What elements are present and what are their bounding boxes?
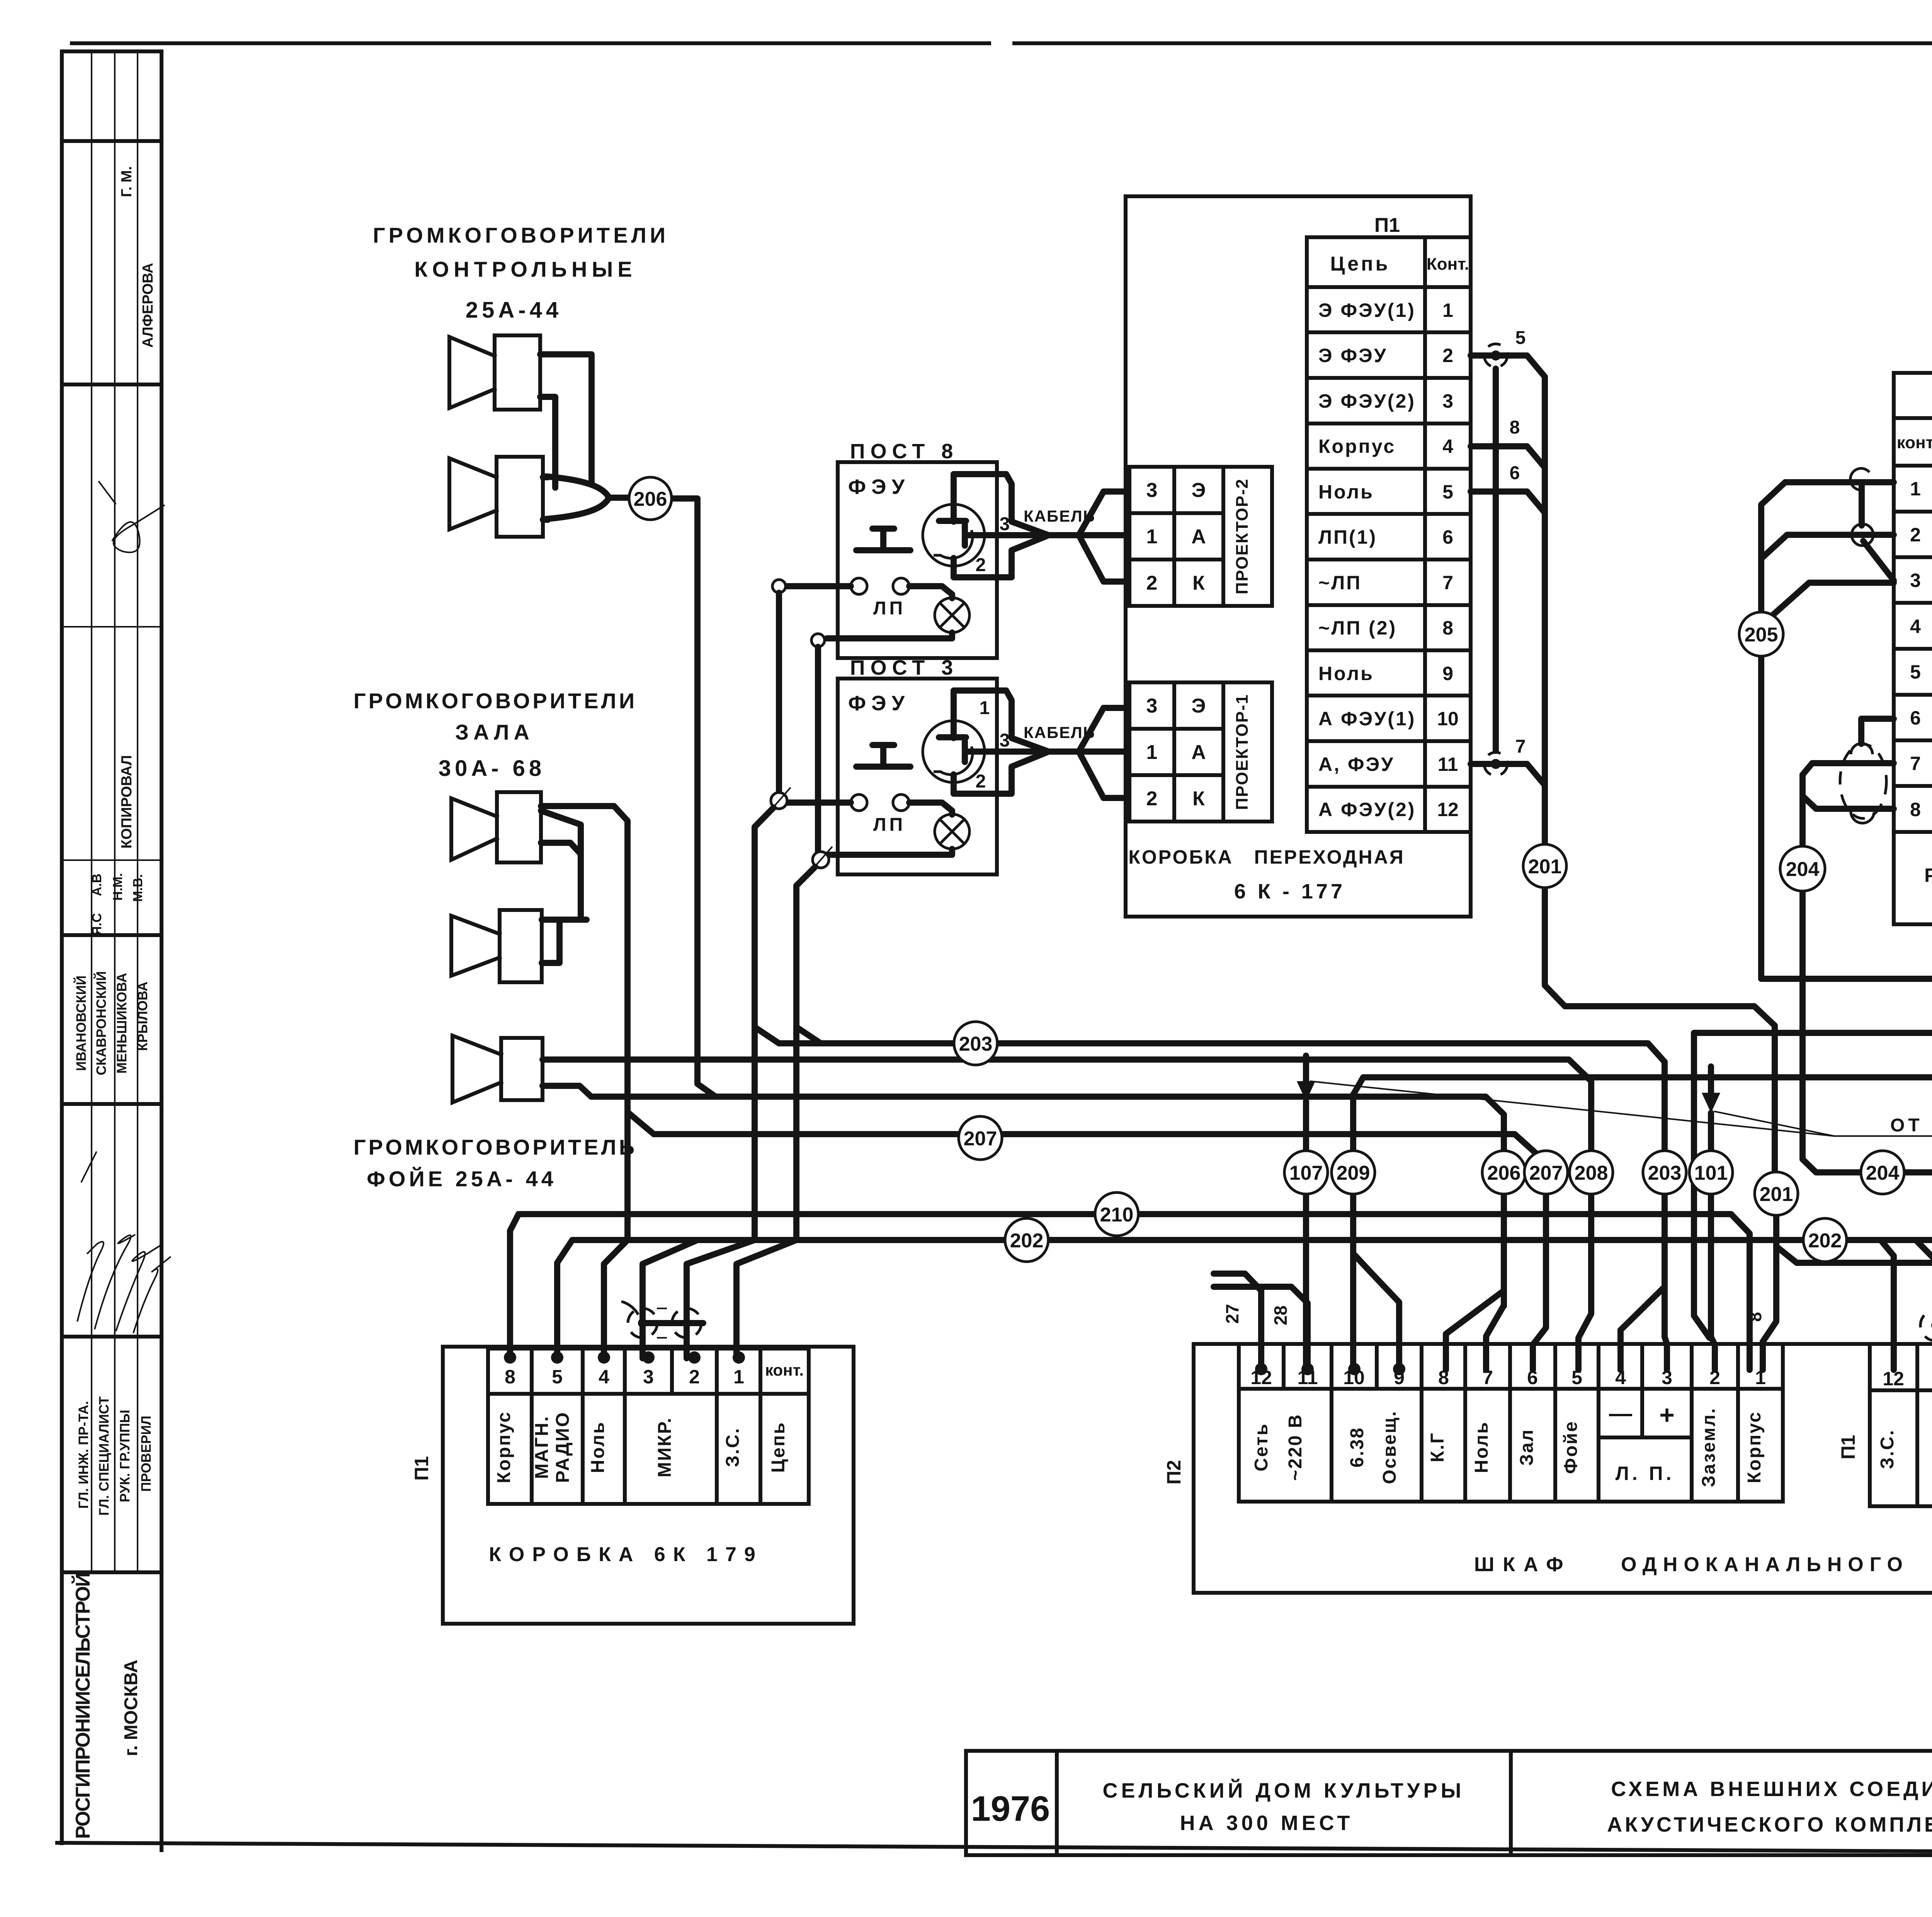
- projector terminal table ПРОЕКТОР-1 outline: [1129, 682, 1272, 822]
- control speaker 1 horn: [449, 337, 495, 408]
- foyer speaker box: [501, 1038, 543, 1100]
- svg-text:5: 5: [1910, 661, 1921, 683]
- svg-text:КОПИРОВАЛ: КОПИРОВАЛ: [119, 755, 135, 849]
- svg-text:конт.: конт.: [765, 1361, 804, 1379]
- svg-text:Ноль: Ноль: [1318, 481, 1374, 503]
- П1 pin11 connector dot: [1931, 1321, 1932, 1330]
- svg-text:2: 2: [1146, 572, 1158, 594]
- microphone shield dashed circle left: [628, 1308, 657, 1338]
- box 6К179 col line 2093: [807, 1349, 811, 1504]
- cable 201 below circle into П2 pin1: [1763, 1215, 1776, 1370]
- svg-text:7: 7: [1515, 737, 1526, 757]
- svg-text:8: 8: [1910, 799, 1921, 820]
- svg-text:П1: П1: [1837, 1435, 1859, 1459]
- hall speaker 2 horn: [451, 916, 500, 976]
- svg-text:6.38: 6.38: [1347, 1427, 1367, 1467]
- П1 header underline: [1307, 285, 1471, 289]
- svg-text:203: 203: [959, 1033, 993, 1055]
- svg-text:4: 4: [599, 1366, 609, 1388]
- jumper diagonal pin2-pin3: [1863, 541, 1894, 580]
- svg-text:Ноль: Ноль: [1471, 1421, 1492, 1473]
- svg-text:ГЛ. ИНЖ. ПР-ТА.: ГЛ. ИНЖ. ПР-ТА.: [76, 1401, 91, 1509]
- shield hop arc pin6: [1851, 743, 1872, 754]
- cable number circle 201: [1755, 1172, 1798, 1215]
- cabinet П2 table top/bottom lines: [1239, 1387, 1783, 1391]
- svg-text:2: 2: [1442, 345, 1453, 366]
- regulator П1 row line 1: [1894, 510, 1932, 514]
- tube pin 3 wire post 3: [966, 748, 1049, 755]
- cabinet П2 col line 3792: [1463, 1344, 1467, 1502]
- cable 204 from regulator down and across: [1803, 890, 1861, 1172]
- svg-text:ГРОМКОГОВОРИТЕЛЬ: ГРОМКОГОВОРИТЕЛЬ: [354, 1135, 637, 1159]
- cabinet П2 col line 4025: [1553, 1344, 1557, 1502]
- cable number circle 205: [1739, 612, 1783, 656]
- push button stem post 8: [880, 529, 886, 549]
- svg-text:28: 28: [1270, 1305, 1291, 1325]
- svg-text:3: 3: [1000, 514, 1010, 534]
- wire 101 into circle and П2 pin2: [1711, 1113, 1715, 1370]
- svg-text:ПРОВЕРИЛ: ПРОВЕРИЛ: [139, 1416, 154, 1492]
- svg-text:1: 1: [1910, 478, 1921, 500]
- wire hall spk1 top pin: [541, 803, 614, 809]
- cabinet П2 col line 3563 upper (Освещ merged): [1375, 1344, 1379, 1389]
- wire 107 arrow from distribution device: [1303, 1056, 1309, 1082]
- cable number circle 101: [1689, 1151, 1733, 1194]
- svg-text:+: +: [1659, 1400, 1675, 1430]
- cable number circle 203: [954, 1022, 997, 1065]
- cable 208 below circle into П2 pin5: [1578, 1194, 1591, 1370]
- box 6К179 col line 1617: [623, 1349, 627, 1504]
- regulator П1 row line 0: [1894, 464, 1932, 468]
- svg-text:А.В: А.В: [90, 874, 104, 896]
- svg-text:107: 107: [1289, 1162, 1323, 1184]
- svg-text:Э ФЭУ(1): Э ФЭУ(1): [1318, 299, 1416, 321]
- svg-text:202: 202: [1010, 1230, 1044, 1252]
- svg-text:А ФЭУ(1): А ФЭУ(1): [1318, 708, 1416, 730]
- svg-text:4: 4: [1910, 616, 1921, 637]
- svg-text:СЕЛЬСКИЙ ДОМ КУЛЬТУРЫ: СЕЛЬСКИЙ ДОМ КУЛЬТУРЫ: [1103, 1779, 1465, 1802]
- regulator П1 table outline: [1894, 418, 1932, 832]
- svg-text:КОРОБКА 6К 179: КОРОБКА 6К 179: [489, 1543, 763, 1566]
- svg-text:2: 2: [1146, 788, 1158, 810]
- svg-text:25А-44: 25А-44: [466, 298, 562, 323]
- box 6К179 col line 1968: [759, 1349, 762, 1504]
- run cable 202 from box 6К179 to cabinet П1: [572, 1240, 1932, 1311]
- run cable 201 from transition box: [1565, 1006, 1775, 1173]
- П1 pin11 shield dashed circle: [1920, 1310, 1932, 1341]
- wire lamp return post 3: [827, 849, 952, 855]
- wire spk2 bottom pin to cable merge: [543, 517, 548, 523]
- junction circle with branch post3 button bus: [771, 793, 787, 809]
- cable number circle 203: [1643, 1151, 1686, 1194]
- svg-text:Э ФЭУ(2): Э ФЭУ(2): [1318, 390, 1416, 412]
- tube anode bar post 3: [939, 734, 966, 740]
- П1 row divider under Э ФЭУ(2): [1307, 422, 1471, 425]
- box 6К179 contact dot pin 5: [551, 1351, 563, 1364]
- cable fan to terminal row А post 8: [1079, 532, 1128, 538]
- border top line right part: [1014, 41, 1932, 45]
- stamp top line: [62, 49, 162, 53]
- lamp bus diagonal to lower vertical: [796, 867, 821, 1043]
- regulator П1 row line 6: [1894, 738, 1932, 742]
- tube cathode bar post 8: [962, 525, 968, 546]
- svg-text:206: 206: [634, 488, 667, 510]
- svg-text:210: 210: [1100, 1204, 1134, 1226]
- cabinet П2 col line 3322 upper (Сеть merged): [1282, 1344, 1286, 1389]
- П1 row divider under А, ФЭУ: [1307, 785, 1471, 789]
- hall speaker 1 box: [497, 792, 541, 862]
- svg-text:2: 2: [1910, 524, 1921, 546]
- svg-text:4: 4: [1442, 435, 1453, 457]
- title block divider year: [1055, 1751, 1059, 1855]
- cabinet П1 col line 4839: [1868, 1344, 1872, 1506]
- shield tie bar: [643, 1320, 703, 1326]
- svg-text:ПРОЕКТОР-1: ПРОЕКТОР-1: [1233, 694, 1252, 810]
- svg-text:2: 2: [976, 555, 986, 575]
- box 6К179 col line 1855: [715, 1349, 719, 1504]
- svg-text:ФЭУ: ФЭУ: [848, 692, 910, 715]
- button contact right post 8: [893, 578, 909, 594]
- svg-text:ГРОМКОГОВОРИТЕЛИ: ГРОМКОГОВОРИТЕЛИ: [373, 223, 669, 247]
- П2 contact dot at 3264: [1255, 1363, 1267, 1375]
- bus vertical buttons between runs: [752, 1027, 758, 1240]
- svg-text:А ФЭУ(2): А ФЭУ(2): [1318, 799, 1416, 820]
- svg-text:ФОЙЕ 25А- 44: ФОЙЕ 25А- 44: [367, 1167, 557, 1191]
- svg-text:К.Г: К.Г: [1427, 1432, 1448, 1463]
- continuation lamp bus down to box 6K179 contact 1: [736, 1240, 796, 1358]
- cabinet П2 ЛП cell divider: [1599, 1436, 1692, 1439]
- cable 206 branch to П2 pin7: [1486, 1305, 1504, 1370]
- svg-text:ГЛ. СПЕЦИАЛИСТ: ГЛ. СПЕЦИАЛИСТ: [97, 1397, 112, 1516]
- wire box 6К179 pin5 up to run 202: [557, 1240, 572, 1358]
- svg-text:М.В.: М.В.: [131, 874, 145, 902]
- wire spk1 bottom pin to cable merge: [540, 397, 555, 488]
- svg-text:1: 1: [1442, 299, 1453, 321]
- svg-text:Э: Э: [1192, 695, 1206, 717]
- box 6К179 terminal table lines: [488, 1347, 809, 1351]
- stamp divider: [62, 383, 162, 386]
- П2 pins 12/11 mains stubs 28: [1214, 1287, 1308, 1370]
- run cable 203 from posts to cabinet: [779, 1043, 1665, 1151]
- svg-text:3: 3: [1146, 479, 1158, 502]
- cabinet П2 col line 4137: [1597, 1344, 1600, 1502]
- lamp ЛП post 3: [935, 814, 969, 849]
- svg-text:ЗАЛА: ЗАЛА: [455, 720, 534, 744]
- svg-text:ШКАФ: ШКАФ: [1474, 1553, 1572, 1576]
- svg-text:Фойе: Фойе: [1561, 1420, 1581, 1474]
- cable 203 branch to П2 pin4: [1621, 1287, 1665, 1370]
- П1 row divider under Корпус: [1307, 467, 1471, 471]
- svg-text:Э ФЭУ: Э ФЭУ: [1318, 345, 1388, 366]
- svg-text:7: 7: [1910, 753, 1921, 774]
- svg-text:3: 3: [643, 1366, 654, 1388]
- cable 201 bundle vertical: [1542, 377, 1548, 845]
- svg-text:К: К: [1192, 788, 1205, 810]
- svg-text:А: А: [1191, 526, 1206, 548]
- note leader rule: [1834, 1135, 1932, 1137]
- П1 row divider under Э ФЭУ(1): [1307, 330, 1471, 334]
- cabinet ШКАФ 50У-55 outline: [1194, 1344, 1932, 1593]
- run cable 210 from box 6К179 to cabinet: [519, 1214, 1750, 1370]
- svg-text:207: 207: [964, 1128, 997, 1150]
- stamp signature squiggle: [99, 481, 165, 552]
- wire circle 206 to vertical drop: [672, 498, 716, 1097]
- stamp signature squiggles block: [77, 1242, 104, 1322]
- cable merge lens symbol upper: [546, 476, 609, 498]
- wire 6 from row Ноль contact 5: [1471, 492, 1545, 513]
- cabinet П2 col line 3206: [1237, 1344, 1241, 1502]
- svg-text:—: —: [1609, 1400, 1632, 1426]
- push button bar post 8: [856, 547, 910, 553]
- box 6К179 col line 1739 upper only (МИКР merged): [670, 1349, 674, 1394]
- svg-text:ЛП(1): ЛП(1): [1318, 526, 1377, 548]
- svg-text:РАДИО: РАДИО: [553, 1411, 573, 1483]
- shield connector dashed circle on wire 5: [1484, 344, 1507, 367]
- wire spk1 top pin to cable merge: [540, 354, 592, 483]
- tube pin 3 wire post 8: [966, 532, 1049, 538]
- cable fan to terminal row Э post 8: [1079, 492, 1128, 535]
- junction slash post3 lamp bus: [810, 847, 832, 872]
- svg-text:ФЭУ: ФЭУ: [848, 475, 910, 498]
- svg-text:Корпус: Корпус: [1318, 435, 1396, 457]
- stamp divider: [62, 1102, 162, 1106]
- svg-text:П2: П2: [1163, 1460, 1185, 1485]
- junction circle post8 button bus: [772, 580, 786, 593]
- cable fan to terminal row К post 8: [1079, 535, 1128, 582]
- svg-text:ОТ РАСПРЕДЕЛИТЕЛЬНОГО: ОТ РАСПРЕДЕЛИТЕЛЬНОГО: [1890, 1115, 1932, 1136]
- svg-text:А, ФЭУ: А, ФЭУ: [1318, 754, 1395, 775]
- junction circle post8 lamp bus: [811, 634, 825, 647]
- svg-text:~220 В: ~220 В: [1285, 1414, 1306, 1481]
- hall speaker 1 horn: [451, 798, 497, 860]
- svg-text:МАГН.: МАГН.: [532, 1415, 552, 1479]
- cable number circle 209: [1332, 1151, 1375, 1194]
- bus diagonal to lower vertical (buttons): [755, 808, 779, 1043]
- button contact left post 8: [851, 578, 867, 594]
- box 6К179 contact dot pin 3: [642, 1351, 655, 1364]
- П1 row divider under ЛП(1): [1307, 558, 1471, 561]
- cable number circle 206: [1482, 1151, 1526, 1194]
- cable number circle 201: [1523, 844, 1566, 888]
- wire 107 into circle and П2 pin11: [1303, 1101, 1309, 1370]
- cable fan to terminal row А post 3: [1079, 748, 1128, 755]
- box 6К179 col line 1263: [486, 1349, 490, 1504]
- box 6К179 contact dot pin 8: [504, 1351, 516, 1364]
- tube grid arc post 8: [934, 530, 973, 558]
- cable number circle 204: [1780, 846, 1825, 891]
- jumper vertical pin1-pin2: [1859, 485, 1865, 526]
- П1 row divider under Э ФЭУ: [1307, 376, 1471, 380]
- shield tie hook: [621, 1301, 638, 1315]
- wire regulator П1 pin3 to cable 205: [1764, 583, 1894, 623]
- svg-text:Цепь: Цепь: [1330, 253, 1390, 275]
- svg-text:ГРОМКОГОВОРИТЕЛИ: ГРОМКОГОВОРИТЕЛИ: [354, 689, 637, 713]
- twist symbol on pin1 wire: [1850, 468, 1869, 490]
- wire regulator П1 pin6 to shield: [1861, 719, 1894, 744]
- svg-text:КОРОБКА ПЕРЕХОДНАЯ: КОРОБКА ПЕРЕХОДНАЯ: [1128, 846, 1405, 868]
- button contact right post 3: [893, 794, 909, 811]
- cable 204 from circle to П1 pin13: [1904, 1172, 1932, 1310]
- volume regulator РЕГУЛЯТОР ГРОМКОСТИ 60К-31 outline: [1894, 373, 1932, 924]
- title block outline: [966, 1751, 1932, 1855]
- cable fan to terminal row К post 3: [1079, 752, 1128, 798]
- svg-text:6: 6: [1442, 526, 1453, 548]
- wire 5 from row Э ФЭУ contact 2: [1471, 356, 1545, 377]
- svg-text:9: 9: [1442, 663, 1453, 684]
- lamp ЛП post 8: [935, 598, 969, 633]
- svg-text:30А- 68: 30А- 68: [439, 756, 545, 781]
- svg-text:203: 203: [1648, 1162, 1682, 1184]
- microphone shield dashed pair lines: [657, 1308, 672, 1309]
- svg-text:Э: Э: [1192, 479, 1206, 502]
- tube cathode bar post 3: [962, 741, 968, 762]
- tube anode stem and top lead post 8: [954, 474, 1049, 535]
- svg-text:206: 206: [1487, 1162, 1521, 1184]
- svg-text:8: 8: [1442, 617, 1453, 639]
- tube anode bar post 8: [939, 518, 966, 524]
- regulator П1 row line 7: [1894, 784, 1932, 788]
- cable number circle 107: [1284, 1151, 1328, 1194]
- П1 row divider under ~ЛП (2): [1307, 648, 1471, 652]
- cable number circle 207: [959, 1116, 1002, 1160]
- svg-text:27: 27: [1222, 1304, 1242, 1323]
- svg-text:7: 7: [1442, 572, 1453, 594]
- svg-text:Корпус: Корпус: [1744, 1411, 1765, 1483]
- cable number circle 202: [1005, 1218, 1048, 1262]
- svg-text:РЕГУЛЯТОР ГРОМКОСТИ: РЕГУЛЯТОР ГРОМКОСТИ: [1924, 864, 1932, 886]
- junction circle with branch post3 lamp bus: [813, 852, 829, 868]
- stamp divider: [62, 1570, 162, 1574]
- svg-text:Н.М.: Н.М.: [111, 873, 125, 901]
- svg-text:КРЫЛОВА: КРЫЛОВА: [135, 981, 150, 1051]
- П2 contact dot at 3621: [1393, 1363, 1405, 1375]
- svg-text:РУК. ГР.УППЫ: РУК. ГР.УППЫ: [117, 1410, 133, 1502]
- control speaker 1 box: [495, 335, 540, 410]
- svg-text:ПРОЕКТОР-2: ПРОЕКТОР-2: [1233, 478, 1252, 594]
- svg-text:ПОСТ 8: ПОСТ 8: [850, 440, 959, 463]
- shield hop arc bottom: [1851, 811, 1874, 823]
- cable fan to terminal row Э post 3: [1079, 708, 1128, 752]
- wire button right contact to lamp post 8: [909, 586, 952, 598]
- lamp bus vertical down to post3 junction: [815, 647, 821, 852]
- regulator П1 row line 5: [1894, 693, 1932, 697]
- svg-text:5: 5: [1442, 481, 1453, 503]
- svg-text:МЕНЬШИКОВА: МЕНЬШИКОВА: [114, 973, 129, 1074]
- П2 contact dot at 3505: [1348, 1363, 1361, 1375]
- box 6К179 col line 1376: [530, 1349, 534, 1504]
- svg-text:ЛП: ЛП: [873, 598, 906, 619]
- box 6К179 contact dot pin 4: [598, 1351, 610, 1364]
- svg-text:К: К: [1192, 572, 1205, 594]
- tube grid arc post 3: [934, 747, 973, 775]
- svg-text:НА 300 МЕСТ: НА 300 МЕСТ: [1180, 1812, 1354, 1835]
- svg-text:Л. П.: Л. П.: [1616, 1463, 1675, 1484]
- cable number circle 210: [1095, 1192, 1138, 1236]
- svg-text:А: А: [1191, 741, 1206, 764]
- run foyer speaker wire to cable 208: [543, 1060, 1591, 1151]
- cable 209 below circle into П2 pin10: [1350, 1194, 1356, 1370]
- svg-text:Зал: Зал: [1517, 1429, 1537, 1466]
- cabinet П2 col line 4614: [1781, 1344, 1785, 1502]
- run cable 205 from regulator to cabinet П1: [1761, 979, 1932, 1113]
- svg-text:АЛФЕРОВА: АЛФЕРОВА: [140, 263, 156, 348]
- box 6К179 contact dot pin 2: [688, 1351, 701, 1364]
- svg-text:Освещ.: Освещ.: [1379, 1410, 1400, 1484]
- wire hall spk2 top pin: [542, 917, 587, 923]
- svg-text:1: 1: [733, 1366, 744, 1388]
- wire regulator П1 pin1 to cable 205: [1761, 482, 1894, 979]
- svg-text:1: 1: [1146, 526, 1158, 548]
- cable number circle 208: [1570, 1151, 1613, 1194]
- cable number circle 204: [1861, 1151, 1904, 1194]
- post box ПОСТ 8: [838, 462, 997, 658]
- wire button left contact out post 3: [787, 799, 851, 806]
- hall speakers cable 207 vertical: [614, 806, 628, 1240]
- border bottom line: [57, 1843, 1932, 1855]
- stamp divider: [62, 1335, 162, 1339]
- cabinet П2 col line 3446: [1330, 1344, 1333, 1502]
- svg-text:2: 2: [976, 771, 986, 792]
- wire lamp return post 8: [827, 633, 952, 638]
- tube anode stem and top lead post 3: [954, 691, 1049, 752]
- svg-text:3: 3: [1442, 390, 1453, 412]
- svg-text:5: 5: [1515, 328, 1526, 348]
- stamp column line 3: [137, 51, 138, 1572]
- foyer speaker horn: [452, 1036, 501, 1102]
- svg-text:11: 11: [1438, 754, 1458, 775]
- cabinet П2 col line 3908: [1508, 1344, 1512, 1502]
- svg-text:~ЛП (2): ~ЛП (2): [1318, 617, 1397, 639]
- svg-text:10: 10: [1437, 708, 1459, 730]
- svg-text:П1: П1: [411, 1456, 432, 1481]
- control speaker 2 horn: [449, 458, 497, 529]
- push button bar post 3: [856, 764, 910, 770]
- cable merge lens symbol lower: [546, 498, 609, 519]
- svg-text:З.С.: З.С.: [1877, 1429, 1898, 1469]
- wire regulator П1 pin2 to cable 205: [1763, 535, 1894, 557]
- cable single segment post 3: [1049, 748, 1079, 755]
- transition box КОРОБКА ПЕРЕХОДНАЯ 6К-177 outline: [1126, 196, 1471, 917]
- svg-text:202: 202: [1808, 1230, 1842, 1252]
- svg-text:ПОСТ 3: ПОСТ 3: [850, 656, 959, 679]
- photocell tube body post 8: [923, 504, 985, 566]
- svg-text:12: 12: [1437, 799, 1459, 820]
- stamp divider: [62, 626, 162, 628]
- bus wire post8 button left down to post3 junction: [776, 593, 782, 793]
- wire hall spk2 bottom pin: [542, 920, 560, 963]
- run cable 206 (foyer bottom + control) to cabinet: [543, 1086, 1504, 1151]
- wire merge to circle 206: [609, 495, 629, 501]
- svg-text:8: 8: [1510, 417, 1520, 438]
- wire box 6К179 pin8 up to run 210: [510, 1214, 519, 1358]
- stamp outer left line: [60, 51, 64, 1843]
- svg-text:Сеть: Сеть: [1251, 1423, 1272, 1471]
- stamp column line 1: [91, 51, 92, 1572]
- cable number circle 202: [1803, 1218, 1847, 1262]
- svg-text:ЛП: ЛП: [873, 815, 906, 835]
- wire spk2 top pin to cable merge: [543, 474, 548, 480]
- svg-text:~ЛП: ~ЛП: [1318, 572, 1362, 594]
- svg-text:Ноль: Ноль: [588, 1421, 608, 1473]
- tube pin 2 lead post 3: [954, 752, 1049, 794]
- П1 row divider under А ФЭУ(1): [1307, 739, 1471, 743]
- svg-text:6: 6: [1910, 707, 1921, 729]
- svg-text:101: 101: [1694, 1162, 1728, 1184]
- wire П2 pin9 feeder: [1355, 1255, 1399, 1370]
- cabinet П2 col line 4250 upper: [1640, 1344, 1644, 1437]
- continuation of button bus down to box 6K179 contact 2: [687, 1240, 755, 1358]
- run cable 101 ground from distribution device: [1694, 1033, 1932, 1338]
